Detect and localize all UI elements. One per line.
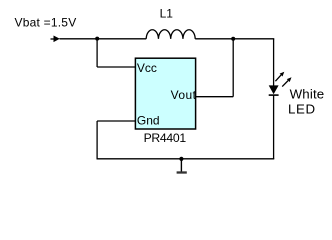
wire node A down to Vcc pin level [96, 39, 98, 67]
LED D1 white LED [269, 85, 279, 95]
label Vbat =1.5V [15, 16, 77, 30]
wire to Vcc pin [97, 66, 135, 68]
pin label Gnd [137, 114, 160, 128]
svg-text:Gnd: Gnd [137, 114, 160, 128]
wire node A to inductor L1 [97, 38, 146, 40]
pin label Vcc [137, 61, 157, 75]
wire LED anode column [273, 39, 275, 86]
label White LED [288, 86, 324, 116]
svg-text:PR4401: PR4401 [144, 131, 187, 145]
wire Gnd pin to left column [97, 120, 135, 122]
svg-text:LED: LED [288, 101, 316, 116]
wire LED cathode to bottom rail [273, 95, 275, 159]
ground node junction dot [179, 157, 183, 161]
node Vbat input terminal arrow [51, 36, 60, 43]
ground symbol [177, 159, 187, 173]
wire battery terminal to node A [60, 38, 98, 40]
svg-text:Vout: Vout [171, 88, 197, 102]
label PR4401 [144, 131, 187, 145]
inductor L1 [146, 30, 195, 39]
svg-text:Vcc: Vcc [137, 61, 157, 75]
label L1 [160, 7, 174, 21]
svg-text:L1: L1 [160, 7, 174, 21]
pin label Vout [171, 88, 197, 102]
LED emission arrow 1 [275, 72, 284, 81]
wire node B down to Vout net [232, 39, 234, 97]
node B junction dot [231, 37, 235, 41]
wire inductor L1 to node B and LED anode corner [195, 38, 274, 40]
svg-text:White: White [290, 86, 325, 101]
wire Vout pin to node B column [196, 96, 234, 98]
IC U1 PR4401 body [135, 58, 195, 129]
wire bottom ground rail [97, 158, 275, 160]
node A junction dot [95, 37, 99, 41]
svg-text:Vbat =1.5V: Vbat =1.5V [15, 16, 77, 30]
wire left column down to bottom rail [96, 121, 98, 159]
LED emission arrow 2 [282, 77, 291, 86]
